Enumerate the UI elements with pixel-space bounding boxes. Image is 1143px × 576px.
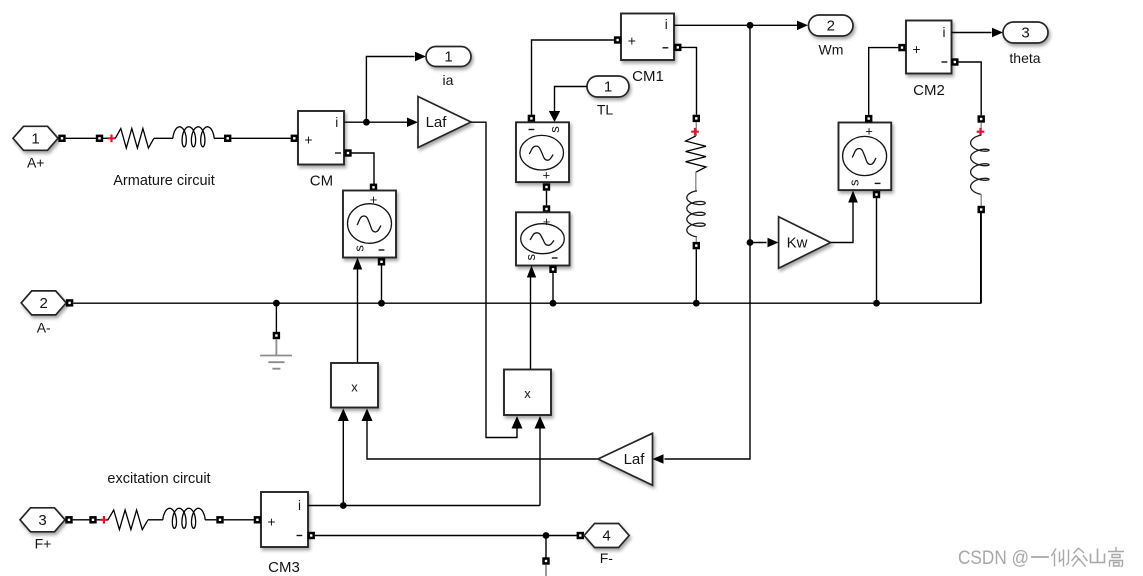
controlled voltage source S2 (flipped) [516,122,569,182]
gain Laf (armature) [418,97,471,148]
connector ground F- [542,557,549,564]
wire S1 - to A- bus [381,266,383,304]
input port 2 A- [21,291,66,336]
connector CM3 + input port [254,516,261,523]
svg-text:x: x [524,386,531,401]
current measurement block CM1 [621,14,674,86]
wire junction to Kw gain [750,242,767,244]
connector CM3 - output port [308,532,315,539]
gain Laf2 (feedback, left pointing) [598,433,653,485]
input port 4 F- [584,524,629,567]
svg-text:Laf: Laf [624,451,646,468]
connector S4 + top port [865,115,872,122]
wire CM1 - to field RL branch [682,47,697,114]
arrow into outport theta [992,28,1003,37]
wire Laf output down to product X2 [471,122,517,437]
wire Rm to Lm gray [695,172,697,191]
red plus polarity mark excitation [97,516,109,524]
arrow into product X2 input 1 [512,416,523,429]
product block X2 [504,370,551,416]
connector S4 - bottom port [873,191,880,198]
wire inductor to connector excitation [205,519,216,521]
wire CM - to source S1 [352,153,375,186]
wire A+ to armature RL [66,137,96,139]
svg-text:ia: ia [443,72,454,88]
junction S4 minus on bus [873,300,880,307]
svg-text:2: 2 [827,18,835,35]
arrow into outport ia [415,52,426,61]
svg-text:4: 4 [602,528,610,545]
arrow into X1 input 1 [338,409,349,422]
connector on armature wire [96,135,103,142]
ground symbol [260,339,292,369]
arrow into outport Wm [797,21,808,31]
wire field RL to bus [695,249,697,303]
svg-text:i: i [298,498,301,513]
controlled voltage source S3 [516,212,570,265]
connector at F- port [577,532,584,539]
current measurement block CM [298,111,344,190]
connector CM2 - output port [951,58,958,65]
connector field RL bottom [693,242,700,249]
svg-text:s: s [351,245,366,252]
wire F+ to excitation RL [73,519,90,521]
wire TL to S2 s input [555,87,588,112]
A- bus wire [73,212,980,303]
svg-text:theta: theta [1009,50,1040,66]
svg-text:1: 1 [604,79,612,96]
arrow into S3 s input [527,266,536,278]
input port 3 F+ [20,508,65,552]
junction Kw tap [747,239,754,246]
svg-text:s: s [847,179,862,186]
svg-text:+: + [628,33,636,49]
arrow into S2 s input (down) [549,111,560,122]
wire CM3 - to F- [315,535,577,537]
wire S1 s input from product X1 [357,270,359,364]
wire inductor to connector [214,137,224,139]
svg-text:x: x [351,380,358,395]
svg-text:F+: F+ [35,536,52,552]
svg-text:+: + [304,132,312,148]
svg-text:CM1: CM1 [632,68,664,85]
junction Wm node [747,22,754,29]
wire CM2 i output to theta [952,32,992,34]
inductor Lf (vertical right) [971,135,989,194]
svg-text:+: + [912,41,920,57]
watermark CSDN @yiyangzhongshangao [958,547,1124,569]
junction F- ground tap [543,532,550,539]
connector on excitation wire [89,516,96,523]
arrow into Laf2 input [653,454,664,464]
arrow into S4 s input [848,191,858,203]
wire Lf to connector gray [980,194,982,206]
svg-text:excitation circuit: excitation circuit [107,471,210,487]
junction CM3 i node [340,502,347,509]
output port 3 theta [1003,22,1048,66]
red plus polarity mark Lf [977,123,985,136]
product block X1 [331,363,378,408]
svg-text:3: 3 [1021,25,1029,42]
inductor Lm (vertical) [687,191,705,237]
wire S4 + to CM2 + input [869,48,899,115]
wire CM2 - to Lf inductor [959,62,982,115]
svg-text:A-: A- [37,320,51,336]
svg-text:+: + [543,167,551,182]
wire bus to ground connector [275,303,277,332]
arrow into S1 s input [353,258,362,270]
svg-text:s: s [523,253,538,260]
arrow into gain Kw [768,238,779,247]
wire Lm to connector gray [695,237,697,242]
svg-text:Wm: Wm [819,42,844,58]
wire S3 s input from product X2 [530,278,532,370]
svg-text:Kw: Kw [787,235,808,252]
connector S3 + top port [543,205,550,212]
resistor Rm (vertical) [686,136,706,172]
wire junction down to ground connector [545,536,547,558]
svg-text:1: 1 [444,49,452,66]
connector S2 - top port [528,115,535,122]
connector S1 - bottom port [378,258,385,265]
svg-text:2: 2 [40,295,48,312]
wire S3 - to bus [552,273,554,303]
wire Kw output to S4 s input [831,203,853,243]
junction node ia [363,119,370,126]
controlled voltage source S4 [839,123,892,191]
junction S1 minus on bus [378,300,385,307]
wire CM i output to Laf gain [344,121,408,123]
svg-text:Armature circuit: Armature circuit [113,173,215,189]
controlled voltage source S1 [343,191,396,258]
junction field RL on bus [693,300,700,307]
wire to CM3 + input [224,519,254,521]
svg-text:i: i [335,115,338,130]
red plus polarity mark armature [103,135,116,143]
gain Kw [779,217,831,269]
connector ground [273,332,280,339]
junction S3 minus on bus [550,300,557,307]
wire CM1 + input to S2 [532,40,615,115]
connector after armature inductor [224,135,231,142]
inductor Lf (excitation) [163,508,205,528]
wire CM3 i output to products [308,505,540,507]
wire resistor to inductor excitation [148,519,163,521]
connector S2 + bottom port [543,183,550,190]
connector at A+ port [58,135,65,142]
connector CM - output port [344,149,351,156]
ground stem F- gray [545,565,547,576]
wire X1 input1 from CM3 i [342,420,344,506]
connector S3 - bottom port [549,266,556,273]
wire S4 - to bus [876,198,878,303]
arrow into X1 input 2 [362,409,373,422]
svg-text:+: + [267,513,275,529]
arrow into gain Laf [407,118,418,128]
output port 1 ia [426,47,471,89]
input port 1 TL [587,76,629,118]
connector after excitation inductor [216,516,223,523]
wire resistor to inductor [154,137,173,139]
svg-text:TL: TL [597,102,614,118]
svg-text:F-: F- [600,550,614,566]
svg-text:Laf: Laf [426,114,448,131]
connector at A- port [66,299,73,306]
red plus polarity mark field RL [691,122,699,136]
current measurement block CM2 [906,21,952,100]
output port 2 Wm [809,15,854,58]
connector CM1 - output port [674,44,681,51]
input port 1 A+ [13,126,58,170]
connector Lf top [978,115,985,122]
svg-text:CM2: CM2 [913,82,945,99]
junction ground tap [273,300,280,307]
connector at F+ port [65,516,72,523]
svg-text:i: i [943,25,946,40]
svg-text:s: s [547,126,562,133]
connector S1 + top port [370,184,377,191]
wire CM1 i output to Wm [674,24,797,26]
wire Wm node down to Laf2 feedback [665,25,751,459]
arrow into X2 input 2 [535,416,546,429]
connector Lf bottom [978,206,985,213]
wire to CM + input [231,137,290,139]
connector CM + input port [291,135,298,142]
wire Lf bottom to bus corner [980,213,982,303]
inductor La (armature) [173,127,214,147]
svg-text:3: 3 [38,512,46,529]
wire junction up to outport ia [366,57,414,123]
wire X1 input2 from Laf2 [367,420,598,459]
resistor Rf (excitation) [108,510,148,530]
connector field RL top [693,115,700,122]
connector CM2 + input port [898,44,905,51]
connector CM1 + input port [614,36,621,43]
wire S2 + to S3 + [546,191,548,206]
svg-text:CM3: CM3 [268,559,300,576]
svg-text:i: i [665,17,668,32]
svg-text:+: + [543,214,551,229]
svg-text:1: 1 [31,131,39,148]
current measurement block CM3 [261,492,308,576]
wire X2 input2 from CM3 i [539,428,541,506]
svg-text:CM: CM [310,173,333,190]
svg-text:CSDN @: CSDN @ [958,547,1029,569]
resistor Ra (armature) [115,129,154,149]
svg-text:A+: A+ [27,154,45,170]
